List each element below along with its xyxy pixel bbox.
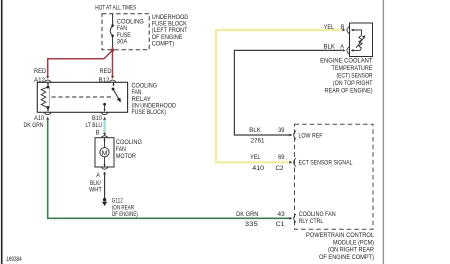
wire: BLK/WHT from motor A to ground G112 xyxy=(104,175,106,199)
motor symbol (M in circle) xyxy=(100,138,109,167)
svg-text:RED: RED xyxy=(34,68,46,75)
terminal pin 43 C1 (arrow + cup) xyxy=(289,214,296,223)
svg-text:43: 43 xyxy=(278,211,285,218)
svg-text:HOT AT ALL TIMES: HOT AT ALL TIMES xyxy=(95,4,136,11)
svg-text:410: 410 xyxy=(252,165,264,172)
terminal B of ECT (arrow + cup) xyxy=(343,26,350,33)
svg-text:OF ENGINE): OF ENGINE) xyxy=(112,211,138,218)
terminal A of motor (cup + arrow) xyxy=(101,167,108,174)
svg-text:169384: 169384 xyxy=(6,256,22,263)
label: wire color BLK/WHT xyxy=(89,180,102,193)
svg-text:(ON RIGHT REAR: (ON RIGHT REAR xyxy=(328,247,374,254)
relay switch (B12 to B10, normally open) xyxy=(103,82,121,112)
terminal B of motor (arrow + cup) xyxy=(101,133,108,138)
terminal pin 69 C2 (arrow + cup) xyxy=(289,158,296,167)
label: fuse value COOLING FAN FUSE 30A xyxy=(117,19,144,46)
svg-text:B10: B10 xyxy=(92,115,102,122)
svg-text:POWERTRAIN CONTROL: POWERTRAIN CONTROL xyxy=(306,232,374,239)
svg-text:A12: A12 xyxy=(34,77,45,84)
svg-text:C2: C2 xyxy=(276,165,284,172)
PCM dashed box xyxy=(295,124,374,229)
label: COOLING FAN RLY CTRL (inside PCM) xyxy=(299,211,336,225)
svg-text:ECT SENSOR SIGNAL: ECT SENSOR SIGNAL xyxy=(299,160,353,167)
label: PCM caption xyxy=(306,232,374,261)
svg-text:39: 39 xyxy=(278,127,285,134)
label: ground G112 caption xyxy=(112,198,138,218)
label: underhood fuse block caption xyxy=(152,14,189,47)
fuse: COOLING FAN FUSE 30A symbol xyxy=(110,14,114,48)
left page border line xyxy=(1,0,3,264)
wire: DK GRN from A10 to PCM pin 43 xyxy=(48,120,290,219)
label: ECT sensor caption xyxy=(320,58,373,95)
svg-text:COMPT): COMPT) xyxy=(152,40,174,47)
svg-text:69: 69 xyxy=(278,154,285,161)
svg-text:OF ENGINE COMPT): OF ENGINE COMPT) xyxy=(319,254,374,261)
svg-text:A10: A10 xyxy=(34,115,44,122)
terminal B10 (cup + arrow) xyxy=(101,113,108,120)
svg-text:RLY CTRL: RLY CTRL xyxy=(299,218,324,225)
svg-text:YEL: YEL xyxy=(250,154,261,161)
svg-text:FAN: FAN xyxy=(116,146,126,153)
relay armature dashed link xyxy=(52,96,114,98)
label: cooling fan relay caption xyxy=(132,83,176,116)
svg-text:TEMPERATURE: TEMPERATURE xyxy=(332,65,373,72)
svg-text:ENGINE COOLANT: ENGINE COOLANT xyxy=(320,58,372,65)
svg-text:RED: RED xyxy=(100,68,112,75)
svg-text:30A: 30A xyxy=(117,39,128,46)
svg-text:LOW REF: LOW REF xyxy=(299,132,323,139)
svg-text:FUSE BLOCK): FUSE BLOCK) xyxy=(132,109,167,116)
wire: RED from fuse output to A12 and B12 xyxy=(48,47,113,77)
svg-text:REAR OF ENGINE): REAR OF ENGINE) xyxy=(325,88,373,95)
svg-text:DK GRN: DK GRN xyxy=(236,211,258,218)
svg-text:DK GRN: DK GRN xyxy=(24,122,44,129)
svg-text:COOLING: COOLING xyxy=(116,139,142,146)
terminal A10 (cup + arrow) xyxy=(44,113,51,120)
svg-text:(ON TOP RIGHT: (ON TOP RIGHT xyxy=(333,80,373,87)
wire: YEL from ECT sensor B to PCM pin 69 xyxy=(216,30,342,162)
terminal B12 (cup + arrow) xyxy=(109,76,116,82)
svg-text:335: 335 xyxy=(245,221,258,228)
terminal pin 39 (arrow + cup) xyxy=(289,131,296,140)
svg-text:LT BLU: LT BLU xyxy=(86,122,103,129)
junction on RED wire below fuse xyxy=(111,49,114,52)
ground G112 symbol xyxy=(102,198,107,206)
right page border line xyxy=(382,0,384,264)
svg-text:B12: B12 xyxy=(99,77,110,84)
svg-text:COOLING FAN: COOLING FAN xyxy=(299,211,336,218)
motor: cooling fan motor box xyxy=(95,138,114,167)
svg-text:MOTOR: MOTOR xyxy=(116,153,136,160)
underhood fuse block (dashed box) xyxy=(102,14,149,50)
terminal A12 (cup + arrow) xyxy=(44,76,51,82)
ECT sensor box xyxy=(350,23,373,57)
svg-text:WHT: WHT xyxy=(89,187,102,194)
relay coil xyxy=(41,82,49,112)
ECT thermistor symbol xyxy=(351,29,366,52)
svg-text:BLK: BLK xyxy=(249,127,261,134)
svg-text:M: M xyxy=(102,150,108,157)
svg-text:MODULE (PCM): MODULE (PCM) xyxy=(333,239,374,246)
relay: cooling fan relay box xyxy=(37,82,127,112)
svg-text:C1: C1 xyxy=(276,221,285,228)
svg-text:BLK: BLK xyxy=(324,43,336,50)
svg-text:A: A xyxy=(96,172,100,179)
wire: BLK from ECT sensor A to PCM pin 39 xyxy=(234,50,342,135)
svg-text:2761: 2761 xyxy=(251,138,265,145)
svg-text:A: A xyxy=(340,43,344,50)
terminal A of ECT (arrow + cup) xyxy=(343,47,350,54)
svg-text:(ECT) SENSOR: (ECT) SENSOR xyxy=(337,73,373,80)
label: cooling fan motor caption xyxy=(116,139,142,160)
wire: LT BLU from B10 to motor terminal B xyxy=(103,120,105,133)
svg-text:B: B xyxy=(96,130,100,137)
svg-text:YEL: YEL xyxy=(324,24,335,31)
